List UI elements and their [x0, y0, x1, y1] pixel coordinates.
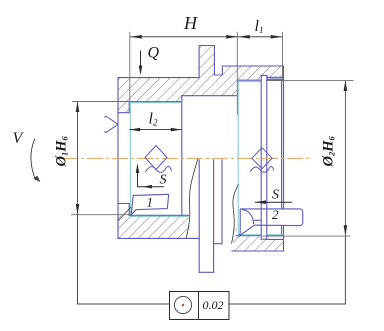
bore 1 left machined face [129, 102, 131, 215]
label diameter 1 H6 [53, 135, 69, 167]
svg-text:2: 2 [272, 207, 279, 222]
hatched wedge left of tool 2 [235, 227, 241, 237]
bore 2 bottom groove line [267, 238, 284, 240]
svg-text:S: S [272, 188, 279, 203]
workpiece lower-right hatched section [232, 236, 284, 251]
bore 2 left machined face [237, 80, 239, 236]
svg-text:0.02: 0.02 [203, 298, 224, 312]
centerline [62, 157, 309, 159]
bar 2 seen through tool 2 [260, 209, 262, 226]
workpiece left face [117, 78, 119, 239]
bore 1 machined ceiling [129, 102, 181, 104]
workpiece bottom-left edge [118, 237, 199, 239]
diamond mark 2 [250, 148, 274, 173]
feed arrow tool 2 [255, 200, 292, 204]
svg-text:H: H [183, 13, 198, 33]
bore 2 floor [236, 235, 283, 237]
svg-text:1: 1 [147, 195, 154, 210]
bore 1 left face upper [118, 102, 129, 113]
clamp diagonal at bore-1 corner [118, 207, 131, 221]
chamber ceiling [182, 95, 236, 97]
svg-text:Q: Q [148, 45, 160, 62]
spindle bar 2 [261, 75, 267, 239]
corner block bore1 bottom-left [118, 204, 129, 216]
dimension phi2 [344, 80, 348, 236]
label diameter 2 H6 [320, 135, 336, 167]
extension lines top [130, 32, 283, 115]
chamber step edge [181, 96, 183, 216]
bore 1 ceiling [129, 101, 182, 103]
dimension H [130, 35, 238, 39]
machined face cyan lines [129, 80, 283, 236]
bore 2 ceiling [238, 79, 283, 81]
feed arrow tool 1 [136, 164, 164, 189]
workpiece bottom-right edge [232, 250, 284, 252]
bore 1 machined floor [129, 215, 188, 217]
break line left [186, 159, 198, 238]
bore 1 floor [129, 214, 188, 216]
force Q arrow [139, 51, 143, 76]
workpiece upper hatched section [118, 46, 284, 113]
indicator leader wires [78, 215, 346, 305]
rotation arc V [31, 139, 36, 181]
tool 2 (cutter) [239, 209, 303, 236]
break line right [232, 184, 239, 244]
dimension l2 [129, 128, 181, 132]
bore 2 top ledge lines [265, 76, 283, 78]
bore 2 machined floor [239, 234, 284, 236]
workpiece top face left [118, 77, 199, 79]
dimension l1 [238, 35, 283, 39]
diamond mark 1 [145, 146, 172, 173]
workpiece right face [283, 66, 285, 251]
svg-text:S: S [160, 173, 167, 188]
bore 2 right inner wall [281, 79, 283, 236]
spindle bar 1 [199, 160, 222, 272]
workpiece lower-left hatched section [118, 215, 190, 238]
tool 1 (cutter) [131, 194, 169, 214]
support symbol on left wall [105, 116, 118, 132]
side plate [221, 160, 223, 244]
dial indicator [170, 292, 230, 320]
bore 2 machined ceiling [238, 81, 260, 83]
dimension phi1 [76, 101, 80, 214]
lug on top [199, 46, 283, 78]
